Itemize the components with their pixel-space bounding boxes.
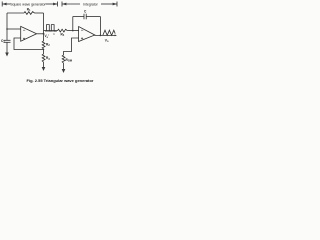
svg-text:−: − [81, 28, 84, 33]
svg-text:Vo′: Vo′ [45, 34, 50, 39]
svg-text:−: − [23, 28, 26, 33]
svg-text:Fig. 2.55 Triangular wave gene: Fig. 2.55 Triangular wave generator [27, 78, 94, 83]
svg-text:ROM: ROM [66, 58, 73, 63]
svg-text:+: + [23, 36, 26, 41]
svg-text:t: t [54, 32, 55, 36]
svg-text:Integrator: Integrator [83, 3, 98, 7]
svg-text:Square wave generator: Square wave generator [10, 3, 46, 7]
svg-text:+: + [81, 36, 84, 41]
svg-text:Vo: Vo [105, 38, 109, 43]
